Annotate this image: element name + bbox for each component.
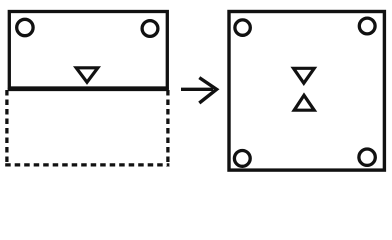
down-pointing triangle marker in right square — [294, 68, 315, 83]
dashed rectangle (bottom half, fold target) left side — [5, 90, 8, 165]
dashed rectangle right side — [166, 90, 169, 167]
left solid rectangle (top half of square) — [9, 12, 167, 89]
circle top-left of left rectangle — [17, 19, 33, 35]
circle top-left of right square — [235, 20, 250, 35]
circle bottom-left of right square — [234, 151, 250, 167]
arrow shaft — [181, 88, 213, 91]
circle top-right of left rectangle — [142, 21, 158, 37]
circle top-right of right square — [359, 18, 375, 34]
up-pointing triangle marker in right square — [294, 95, 314, 110]
down-pointing triangle marker in left rectangle — [76, 68, 98, 82]
arrow head — [199, 78, 216, 103]
left solid rectangle bottom edge (thickened) — [8, 88, 169, 91]
right square — [229, 12, 384, 171]
dashed rectangle bottom side — [5, 163, 169, 166]
circle bottom-right of right square — [359, 149, 375, 165]
